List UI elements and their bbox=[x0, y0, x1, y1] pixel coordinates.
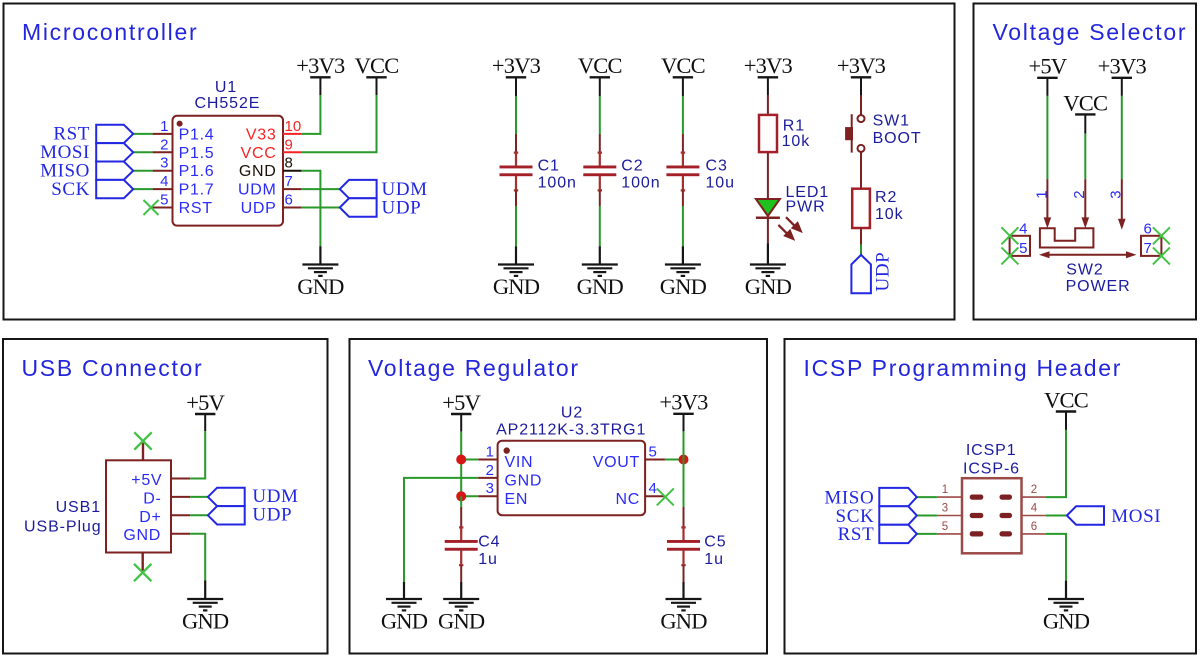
svg-text:GND: GND bbox=[297, 274, 344, 299]
U1 pin5 stub bbox=[151, 207, 173, 209]
svg-text:RST: RST bbox=[179, 200, 213, 217]
svg-text:GND: GND bbox=[660, 274, 707, 299]
ground below U1 bbox=[302, 246, 338, 276]
section box Voltage Selector bbox=[974, 4, 1197, 320]
svg-text:2: 2 bbox=[1071, 190, 1088, 198]
U1 pin1 marker dot bbox=[177, 121, 183, 127]
svg-text:7: 7 bbox=[285, 173, 293, 190]
no-connect X bottom bbox=[134, 564, 151, 581]
section box Microcontroller bbox=[4, 4, 955, 320]
wire SCK to pin3 bbox=[917, 515, 937, 517]
svg-text:D+: D+ bbox=[139, 509, 161, 526]
USB1 shield pin top bbox=[142, 441, 144, 460]
svg-text:R1: R1 bbox=[783, 118, 805, 135]
svg-text:6: 6 bbox=[1031, 521, 1037, 533]
power +3V3 above SW1 bbox=[851, 77, 871, 95]
ground below C4 bbox=[443, 582, 479, 610]
svg-text:P1.6: P1.6 bbox=[179, 163, 215, 180]
power +3V3 regulator bbox=[673, 414, 693, 432]
svg-text:+3V3: +3V3 bbox=[837, 53, 886, 78]
svg-text:D-: D- bbox=[143, 490, 161, 507]
LED1 bottom pin bbox=[767, 217, 769, 244]
svg-text:1u: 1u bbox=[704, 551, 724, 568]
wire C1 to GND bbox=[515, 206, 517, 246]
svg-text:MOSI: MOSI bbox=[1111, 506, 1161, 527]
resistor R1 bbox=[759, 115, 777, 152]
svg-text:100n: 100n bbox=[538, 175, 577, 192]
svg-text:+5V: +5V bbox=[186, 390, 224, 415]
U2 left pin stubs bbox=[478, 460, 497, 497]
svg-text:7: 7 bbox=[1144, 240, 1152, 257]
svg-text:GND: GND bbox=[745, 274, 792, 299]
svg-text:9: 9 bbox=[285, 136, 293, 153]
svg-text:3: 3 bbox=[160, 155, 168, 172]
global label UDM shape bbox=[340, 180, 377, 198]
svg-text:RST: RST bbox=[838, 524, 875, 545]
ground below C2 bbox=[582, 246, 618, 276]
svg-text:C1: C1 bbox=[538, 157, 560, 174]
power VCC selector bbox=[1075, 114, 1095, 133]
U2 pin5 stub bbox=[645, 459, 665, 461]
no-connect X pin4 bbox=[1001, 227, 1018, 244]
USB1 pin stubs bbox=[171, 479, 190, 534]
LED1 emission arrows bbox=[778, 217, 801, 239]
wire pin6 to ground bbox=[1046, 534, 1066, 581]
global label SCK shape bbox=[879, 506, 917, 524]
no-connect X top bbox=[134, 432, 151, 449]
svg-text:P1.5: P1.5 bbox=[179, 145, 215, 162]
wire R1 to LED1 bbox=[767, 153, 769, 199]
wire +5V branch to C4 bbox=[460, 496, 462, 507]
power +5V regulator bbox=[451, 414, 471, 432]
switch SW1 bottom contact bbox=[858, 145, 865, 152]
power +3V3 selector bbox=[1112, 78, 1132, 96]
capacitor C5 bbox=[667, 540, 700, 543]
power VCC above U1 bbox=[366, 77, 386, 95]
global label MOSI shape bbox=[1067, 506, 1104, 524]
ICSP1 pads row1 bbox=[970, 495, 984, 500]
no-connect X pin7 bbox=[1153, 247, 1170, 264]
svg-text:PWR: PWR bbox=[786, 199, 826, 216]
C4 bottom pin bbox=[459, 550, 463, 565]
wire pin6 to UDP bbox=[301, 207, 339, 209]
svg-text:BOOT: BOOT bbox=[873, 130, 922, 147]
svg-text:ICSP Programming Header: ICSP Programming Header bbox=[804, 355, 1123, 381]
svg-text:4: 4 bbox=[160, 173, 168, 190]
power +5V selector bbox=[1037, 78, 1057, 96]
svg-text:1u: 1u bbox=[478, 551, 498, 568]
wire pin7 to UDM bbox=[301, 188, 339, 190]
U2 pin4 stub bbox=[645, 495, 665, 497]
global label MOSI shape bbox=[96, 143, 133, 161]
power VCC above C2 bbox=[590, 77, 610, 96]
junction dot VOUT bbox=[679, 455, 689, 465]
global label RST shape bbox=[96, 125, 133, 143]
power VCC above C3 bbox=[673, 77, 693, 96]
svg-text:VCC: VCC bbox=[241, 145, 277, 162]
wire VCC to C3 bbox=[682, 96, 684, 134]
U1 pin10 stub red bbox=[283, 133, 301, 135]
svg-text:USB Connector: USB Connector bbox=[22, 355, 204, 381]
wire to VIN bbox=[461, 459, 478, 461]
no-connect X pin5 bbox=[1001, 247, 1018, 264]
wire RST to pin5 bbox=[917, 533, 937, 535]
svg-text:SW2: SW2 bbox=[1066, 261, 1103, 278]
svg-text:+5V: +5V bbox=[1029, 54, 1067, 79]
svg-text:+5V: +5V bbox=[131, 472, 162, 489]
svg-text:+5V: +5V bbox=[442, 390, 480, 415]
switch SW1 top contact bbox=[858, 115, 865, 122]
svg-text:UDP: UDP bbox=[873, 252, 894, 292]
svg-text:VCC: VCC bbox=[661, 53, 705, 78]
svg-text:ICSP1: ICSP1 bbox=[966, 442, 1017, 459]
global label UDP shape bbox=[340, 198, 377, 216]
section box ICSP Programming Header bbox=[785, 339, 1197, 654]
global label UDP shape USB bbox=[208, 506, 245, 524]
svg-text:C4: C4 bbox=[478, 534, 500, 551]
power +5V above USB bbox=[195, 414, 215, 431]
svg-text:POWER: POWER bbox=[1066, 278, 1131, 295]
section box Voltage Regulator bbox=[350, 339, 768, 654]
R1 top pin bbox=[767, 95, 769, 115]
svg-text:U2: U2 bbox=[561, 405, 583, 422]
power VCC above ICSP bbox=[1056, 412, 1076, 430]
svg-text:VCC: VCC bbox=[355, 53, 399, 78]
svg-text:GND: GND bbox=[660, 608, 707, 633]
global label MISO shape bbox=[96, 162, 133, 180]
svg-text:5: 5 bbox=[160, 192, 168, 209]
wire VCC to C2 bbox=[599, 96, 601, 134]
svg-text:6: 6 bbox=[1144, 221, 1152, 238]
svg-text:2: 2 bbox=[160, 136, 168, 153]
svg-text:VCC: VCC bbox=[1063, 90, 1107, 115]
SW2 right mount box pins 6,7 bbox=[1141, 236, 1161, 256]
LED1 triangle bbox=[756, 199, 780, 216]
ground below ICSP bbox=[1048, 581, 1084, 611]
ground below C1 bbox=[498, 246, 534, 276]
svg-text:P1.7: P1.7 bbox=[179, 182, 215, 199]
section box USB Connector bbox=[3, 339, 328, 654]
wire RST to pin1 bbox=[133, 133, 152, 135]
svg-text:1: 1 bbox=[1034, 190, 1051, 198]
wire pin2 to VCC bbox=[1046, 430, 1066, 497]
U1 left pin stubs 1-4 bbox=[153, 134, 173, 189]
wire R2 to UDP bbox=[860, 245, 862, 255]
switch SW1 actuator bbox=[851, 114, 853, 152]
wire to EN bbox=[461, 495, 478, 497]
svg-text:UDP: UDP bbox=[252, 504, 292, 525]
wire D- to UDM bbox=[190, 496, 208, 498]
global label UDP vertical shape bbox=[851, 255, 871, 293]
ICSP1 pads row2 bbox=[970, 513, 984, 518]
ground left of C4 bbox=[386, 582, 422, 610]
svg-text:SCK: SCK bbox=[51, 179, 90, 200]
svg-text:GND: GND bbox=[182, 608, 229, 633]
svg-text:UDP: UDP bbox=[241, 200, 277, 217]
LED1 cathode bar bbox=[756, 217, 780, 220]
capacitor C1 bbox=[515, 134, 517, 153]
ground below C5 bbox=[666, 582, 702, 610]
wire SW1 to R2 bbox=[860, 152, 862, 189]
wire C3 to GND bbox=[682, 206, 684, 246]
svg-text:C2: C2 bbox=[621, 157, 643, 174]
svg-text:USB-Plug: USB-Plug bbox=[24, 518, 101, 535]
svg-text:10k: 10k bbox=[875, 206, 904, 223]
svg-text:VCC: VCC bbox=[1044, 387, 1088, 412]
capacitor C4 bbox=[445, 540, 478, 543]
svg-text:GND: GND bbox=[493, 274, 540, 299]
svg-text:GND: GND bbox=[505, 473, 543, 490]
U1 pin8 stub black bbox=[283, 170, 301, 172]
svg-text:Voltage Regulator: Voltage Regulator bbox=[368, 355, 580, 381]
wire +3V3 to C1 bbox=[515, 96, 517, 134]
resistor R2 bbox=[852, 189, 870, 228]
svg-text:UDP: UDP bbox=[382, 197, 422, 218]
wire pin10 to +3V3 bbox=[301, 95, 320, 134]
svg-text:GND: GND bbox=[123, 527, 161, 544]
wire pin9 to VCC bbox=[301, 95, 376, 152]
SW2 pin2 with arrow bbox=[1084, 179, 1086, 220]
svg-text:6: 6 bbox=[285, 192, 293, 209]
USB1 shield pin bottom bbox=[141, 553, 143, 573]
no-connect X NC bbox=[657, 488, 674, 505]
svg-text:100n: 100n bbox=[621, 175, 660, 192]
svg-text:3: 3 bbox=[1108, 190, 1125, 198]
svg-text:USB1: USB1 bbox=[56, 499, 101, 516]
svg-text:1: 1 bbox=[942, 484, 948, 496]
wire VCC to SW2 pin2 bbox=[1084, 134, 1086, 180]
svg-text:10: 10 bbox=[285, 118, 302, 135]
wire +5V pin to power bbox=[190, 431, 205, 478]
ground below C3 bbox=[665, 246, 701, 276]
power +3V3 above U1 bbox=[310, 77, 330, 95]
svg-text:SW1: SW1 bbox=[873, 113, 910, 130]
svg-text:5: 5 bbox=[942, 521, 948, 533]
svg-text:GND: GND bbox=[1043, 608, 1090, 633]
global label RST shape bbox=[879, 525, 917, 543]
svg-text:+3V3: +3V3 bbox=[492, 53, 541, 78]
svg-text:EN: EN bbox=[505, 491, 529, 508]
svg-text:Voltage Selector: Voltage Selector bbox=[993, 19, 1188, 45]
wire C2 to GND bbox=[599, 206, 601, 246]
wire VOUT to +3V3 bbox=[665, 459, 684, 461]
global label MISO shape bbox=[879, 488, 917, 506]
connector ICSP1 body bbox=[962, 478, 1022, 553]
svg-text:4: 4 bbox=[649, 480, 657, 497]
junction dot VIN bbox=[456, 455, 466, 465]
svg-text:GND: GND bbox=[381, 608, 428, 633]
svg-text:+3V3: +3V3 bbox=[1098, 54, 1147, 79]
wire GND pin to ground bbox=[190, 534, 205, 581]
svg-text:1: 1 bbox=[486, 443, 494, 460]
C5 bottom pin bbox=[681, 550, 685, 565]
svg-text:VIN: VIN bbox=[505, 454, 534, 471]
svg-text:R2: R2 bbox=[875, 189, 897, 206]
svg-text:1: 1 bbox=[160, 118, 168, 135]
power +3V3 above C1 bbox=[506, 77, 526, 96]
U1 pin6 stub bbox=[283, 207, 301, 209]
svg-text:NC: NC bbox=[615, 491, 640, 508]
svg-text:10k: 10k bbox=[782, 133, 811, 150]
svg-text:3: 3 bbox=[942, 503, 948, 515]
no-connect X pin6 bbox=[1153, 227, 1170, 244]
regulator U2 body bbox=[498, 441, 645, 516]
wire GND pin to left ground bbox=[404, 478, 478, 582]
U1 pin9 stub red bbox=[283, 151, 301, 153]
svg-text:P1.4: P1.4 bbox=[179, 126, 215, 143]
ICSP1 left pin stubs bbox=[937, 497, 962, 534]
connector USB1 body bbox=[106, 460, 171, 552]
svg-text:GND: GND bbox=[438, 608, 485, 633]
SW2 pin3 with arrow bbox=[1121, 179, 1123, 221]
svg-text:ICSP-6: ICSP-6 bbox=[963, 461, 1020, 478]
svg-text:4: 4 bbox=[1019, 221, 1027, 238]
R2 bottom pin bbox=[860, 228, 862, 245]
switch SW2 body bbox=[1040, 228, 1094, 247]
junction dot EN bbox=[456, 491, 466, 501]
wire MISO to pin3 bbox=[133, 170, 152, 172]
svg-text:C3: C3 bbox=[706, 157, 728, 174]
ground below USB bbox=[187, 581, 223, 611]
SW2 pin1 with arrow bbox=[1046, 179, 1048, 220]
ICSP1 pads row3 bbox=[970, 531, 984, 536]
svg-text:GND: GND bbox=[577, 274, 624, 299]
svg-text:+3V3: +3V3 bbox=[659, 390, 708, 415]
svg-text:CH552E: CH552E bbox=[194, 95, 260, 112]
SW2 slide arrow bbox=[1048, 254, 1128, 256]
global label SCK shape bbox=[96, 180, 133, 198]
wire +3V3 to SW2 pin3 bbox=[1121, 96, 1123, 179]
svg-text:5: 5 bbox=[1019, 240, 1027, 257]
wire SCK to pin4 bbox=[133, 188, 152, 190]
wire D+ to UDP bbox=[190, 514, 208, 516]
wire +3V3 down through VOUT to C5 bbox=[683, 431, 685, 507]
svg-text:2: 2 bbox=[486, 462, 494, 479]
power +3V3 above R1 bbox=[758, 77, 778, 95]
wire +5V to SW2 pin1 bbox=[1046, 96, 1048, 179]
ground below LED1 bbox=[750, 244, 786, 276]
ICSP1 right pin stubs bbox=[1022, 497, 1046, 534]
no-connect X pin5 bbox=[144, 200, 159, 215]
svg-text:U1: U1 bbox=[215, 79, 237, 96]
wire MISO to pin1 bbox=[917, 496, 937, 498]
U1 pin7 stub bbox=[283, 188, 301, 190]
global label UDM shape USB bbox=[208, 488, 245, 506]
wire MOSI to pin2 bbox=[133, 151, 152, 153]
svg-text:4: 4 bbox=[1031, 503, 1038, 515]
svg-text:10u: 10u bbox=[706, 175, 735, 192]
svg-text:GND: GND bbox=[239, 163, 277, 180]
capacitor C3 bbox=[682, 134, 684, 153]
svg-text:VCC: VCC bbox=[578, 53, 622, 78]
wire pin8 to GND bbox=[301, 171, 320, 247]
svg-text:UDM: UDM bbox=[238, 182, 277, 199]
SW2 left mount box pins 4,5 bbox=[1010, 236, 1030, 256]
SW1 top pin bbox=[860, 95, 862, 115]
svg-text:V33: V33 bbox=[246, 126, 277, 143]
op-amp U1 body CH552E bbox=[173, 116, 284, 226]
svg-text:5: 5 bbox=[649, 443, 657, 460]
svg-text:AP2112K-3.3TRG1: AP2112K-3.3TRG1 bbox=[496, 422, 646, 439]
svg-text:Microcontroller: Microcontroller bbox=[22, 19, 198, 45]
capacitor C2 bbox=[599, 134, 601, 153]
svg-text:8: 8 bbox=[285, 155, 293, 172]
U2 pin1 marker dot bbox=[504, 447, 510, 453]
svg-text:C5: C5 bbox=[704, 534, 726, 551]
svg-text:+3V3: +3V3 bbox=[744, 53, 793, 78]
svg-text:2: 2 bbox=[1031, 484, 1037, 496]
wire pin4 to MOSI bbox=[1046, 515, 1067, 517]
svg-text:+3V3: +3V3 bbox=[296, 53, 345, 78]
svg-text:VOUT: VOUT bbox=[593, 454, 640, 471]
svg-text:3: 3 bbox=[486, 480, 494, 497]
wire +5V down to VIN and EN bbox=[460, 432, 462, 497]
